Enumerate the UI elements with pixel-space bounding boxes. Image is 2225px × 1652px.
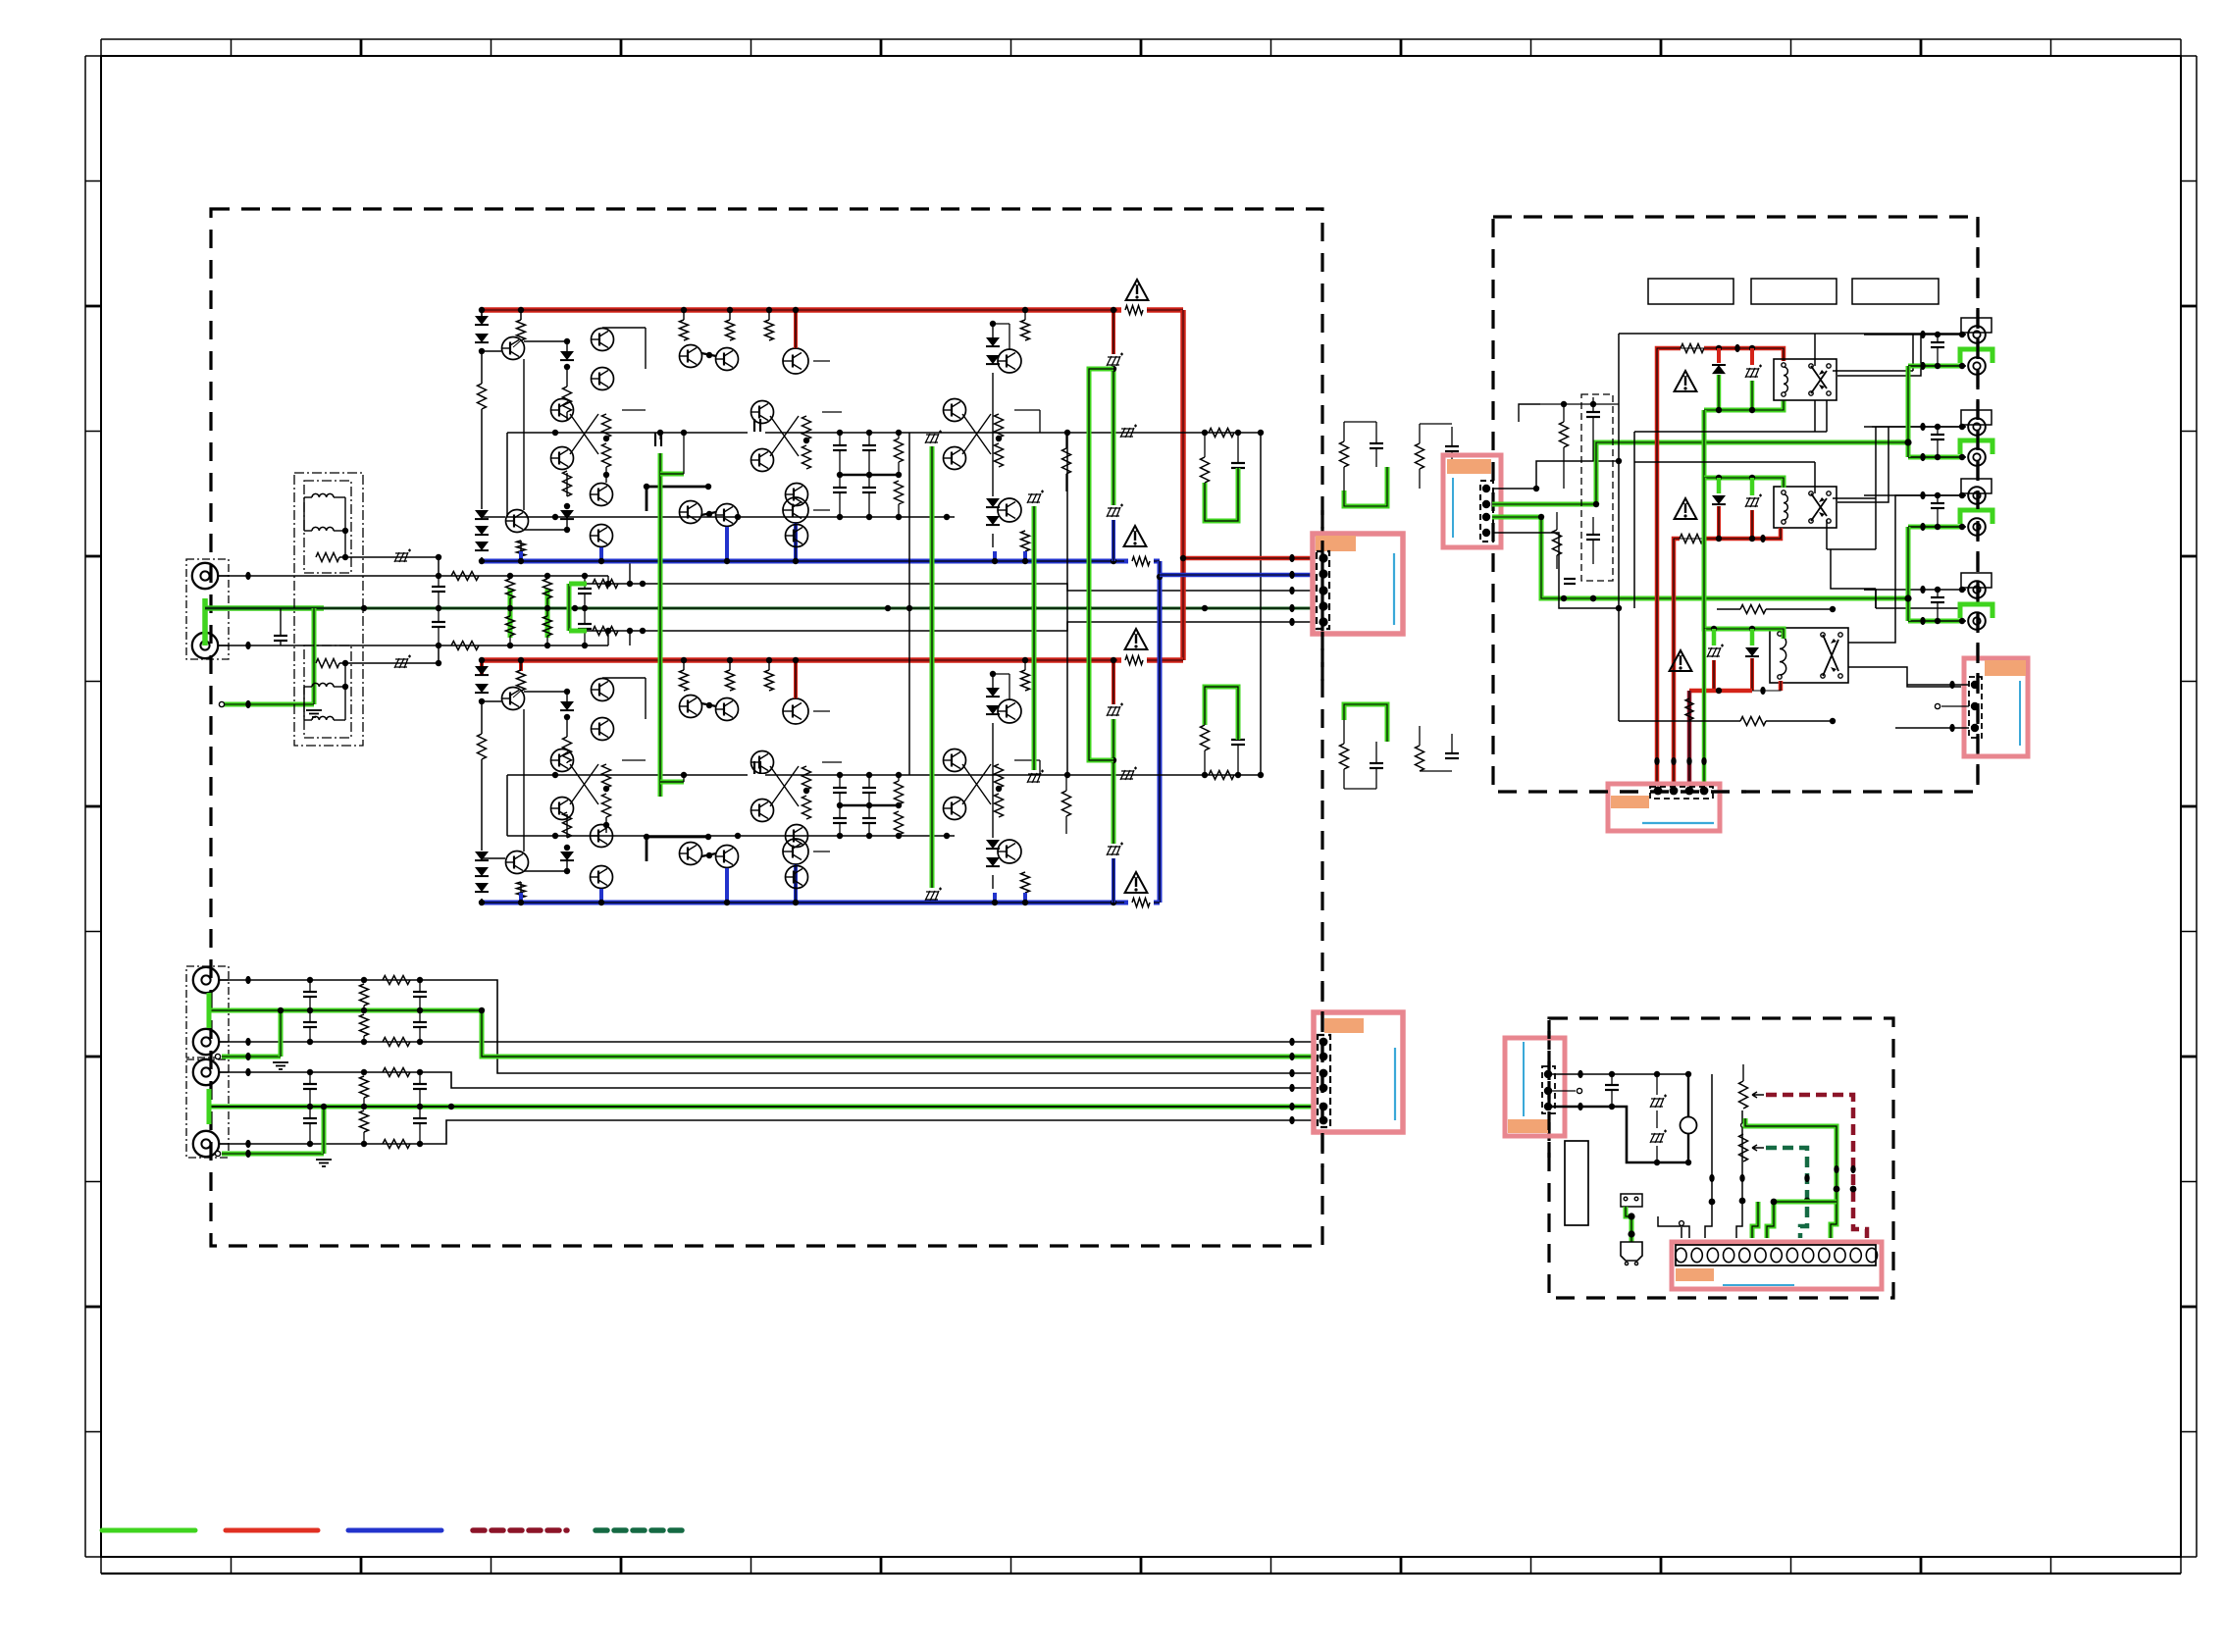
lower input filter caps col1 — [303, 991, 317, 993]
connector CN-B cyan note — [1394, 1048, 1396, 1120]
green link pair1-pair2 — [1906, 366, 1911, 457]
warning triangle lower blue — [1125, 872, 1148, 893]
connector CN-C body — [1443, 455, 1501, 547]
lower half emitter resistor right — [1062, 791, 1071, 816]
connector CN-E cyan note — [1523, 1042, 1525, 1116]
lower input filter caps col1 — [303, 1083, 317, 1085]
relay feed wire black from CN-C pin1 — [1492, 461, 1619, 489]
speaker jack pair capacitor — [1931, 434, 1944, 436]
terminal strip label — [1676, 1268, 1714, 1281]
wires to CN-G — [1907, 684, 1969, 686]
green elbow into pin7 — [1752, 1202, 1758, 1238]
relay box black top bus — [1619, 333, 1961, 335]
zobel network upper — [1204, 433, 1206, 457]
relay circuit 3 red bottom to maroon drop — [1689, 689, 1752, 694]
connector CN-B pin 1 — [1319, 1038, 1328, 1047]
green vertical link relay1-relay2 — [1702, 410, 1707, 478]
connector CN-B pin 4 — [1319, 1084, 1328, 1093]
lower half output transistor top — [998, 699, 1021, 723]
connector CN-E pin strip — [1542, 1066, 1555, 1113]
upper half predriver vertical pair bottom — [591, 484, 613, 506]
lower half diode string left bottom — [475, 852, 489, 860]
lower half predriver vertical pair bottom — [591, 825, 613, 848]
black vertical to terminal 4 — [1736, 1110, 1742, 1238]
transformer upper coil L1a — [312, 493, 334, 497]
upper half base line 2 — [507, 516, 955, 518]
dashed border overlay over connector CN-A — [1320, 510, 1323, 687]
dashed border overlay right box south edge — [1589, 790, 1746, 793]
wire J4 straight to pin1 — [219, 1041, 1314, 1043]
relay box filter dashed rect — [1581, 394, 1613, 581]
lower half power transistor big bottom — [783, 839, 808, 864]
warning triangle upper blue — [1124, 526, 1147, 546]
RCA input jack J2 — [192, 633, 218, 658]
relay box inner vertical right — [1876, 426, 1961, 428]
connector CN-C pin strip — [1480, 481, 1493, 542]
connector CN-A pin 5 — [1319, 617, 1327, 626]
capacitor at input node upper — [432, 586, 445, 588]
relay outputs to jacks — [1833, 370, 1913, 372]
feedback tap to blue rail — [629, 561, 631, 584]
terminal 5 — [1739, 1248, 1750, 1262]
lower input dash-dot box 1 — [186, 966, 229, 1058]
connector CN-D pin 1 — [1654, 787, 1663, 796]
speaker jack pair capacitor — [1931, 502, 1944, 504]
transformer lower coil L2a — [312, 683, 334, 687]
line-filter transformer dash-dot outer box — [294, 473, 363, 746]
connector CN-G label — [1985, 660, 2026, 676]
junction dots on center line — [361, 605, 367, 611]
RCA jack J5 — [193, 1059, 219, 1085]
connector CN-A pin 3 — [1319, 586, 1327, 594]
zener stack 1 — [1656, 1074, 1658, 1095]
signal ground bus green segment — [205, 605, 324, 611]
connector CN-E body — [1505, 1038, 1565, 1136]
border frame bottom band — [101, 1573, 2181, 1575]
lower half base line 1 — [507, 774, 1261, 776]
lower half xgroup link wires — [622, 759, 646, 761]
connector CN-D body — [1608, 784, 1720, 831]
lower half resistor left column — [481, 701, 483, 734]
connector CN-E label — [1508, 1119, 1548, 1133]
connector CN-E pin 1 — [1544, 1070, 1552, 1078]
lower half predriver vertical pair top — [592, 679, 614, 701]
connector CN-A cyan note — [1393, 553, 1395, 625]
lower input filter caps col3 — [413, 991, 427, 993]
green bus channel 4 to pin5 — [209, 1105, 1314, 1110]
connector CN-C cyan note — [1452, 478, 1454, 538]
relay2 zener — [1750, 478, 1755, 495]
connector CN-A pin strip — [1317, 551, 1329, 629]
legend blue solid wire sample — [348, 1528, 441, 1533]
stub 587 to 595 — [607, 576, 609, 584]
terminal 7 — [1771, 1248, 1782, 1262]
RCA jack J6 — [193, 1131, 219, 1157]
speaker jack pair bottom jack (green) — [1908, 619, 1964, 624]
capacitor across CN-E lines — [1605, 1084, 1619, 1086]
upper half power transistor big top — [783, 348, 808, 374]
warning triangle relay3 — [1670, 650, 1692, 671]
upper half resistor left column — [481, 351, 483, 384]
transformer upper section box — [304, 481, 351, 573]
feedback green link — [567, 584, 572, 631]
relay RL3 — [1770, 628, 1848, 683]
terminal 10 — [1819, 1248, 1830, 1262]
upper half cross-coupled pair C — [944, 399, 966, 422]
green link C-shape — [1089, 369, 1113, 760]
upper half bold bias elbow — [647, 486, 708, 489]
lower input dash-dot box 2 — [186, 1059, 229, 1158]
relay green feed from CN-C pin2 — [1492, 442, 1907, 504]
connector CN-B pin 2 — [1319, 1053, 1328, 1061]
warning triangle relay1 — [1675, 371, 1697, 391]
upper half capacitor bank — [833, 444, 847, 446]
connector CN-D pin 4 — [1700, 787, 1709, 796]
upper half power transistor big bottom — [783, 497, 808, 523]
relay1 diode — [1717, 348, 1721, 363]
connector CN-B pin 6 — [1319, 1116, 1328, 1125]
terminal 9 — [1803, 1248, 1814, 1262]
red drop wire 2 — [1672, 560, 1677, 784]
connector CN-D label — [1611, 796, 1649, 808]
speaker jack pair bottom jack (green) — [1908, 525, 1964, 530]
connector CN-D cyan note — [1642, 822, 1714, 824]
indicator circle — [1687, 1074, 1689, 1116]
lower input filter caps col3 — [413, 1083, 427, 1085]
speaker jack pair bottom jack (green) — [1908, 364, 1964, 369]
connector CN-C pin 4 — [1482, 529, 1490, 537]
transformer upper resistor — [316, 553, 339, 562]
upper half output transistor bottom — [998, 498, 1021, 522]
lower half output transistor bottom — [998, 840, 1021, 863]
speaker relay block dashed border — [1493, 217, 1978, 792]
speaker jack pair capacitor — [1931, 341, 1944, 343]
connector CN-C label — [1447, 459, 1491, 474]
RCA jack J4 — [193, 1029, 219, 1055]
transformer lower section box — [304, 645, 351, 738]
upper half transistor Q2 — [506, 510, 529, 533]
terminal 1 — [1676, 1248, 1686, 1262]
legend dark-red dashed wire sample — [473, 1527, 567, 1533]
connector CN-A wires red — [1183, 556, 1314, 561]
terminal 8 — [1786, 1248, 1797, 1262]
supply zener column upper — [1112, 310, 1115, 354]
input RC column 3 upper — [578, 588, 592, 590]
maroon dashed path — [1766, 1095, 1867, 1238]
terminal 2 — [1691, 1248, 1702, 1262]
zobel network lower — [1204, 750, 1206, 775]
zener on upper filter line — [394, 552, 408, 562]
lower half interstage vertical — [523, 709, 525, 852]
right RC pair upper — [1340, 441, 1349, 467]
right RC pair lower — [1340, 744, 1349, 769]
connector CN-B label — [1324, 1018, 1364, 1033]
relay block label rect 2 — [1751, 279, 1837, 304]
lower half capacitor bank bus — [840, 804, 899, 807]
connector CN-C pin 1 — [1482, 485, 1490, 492]
warning triangle top rail — [1126, 280, 1149, 300]
relay green feed from CN-C pin3 — [1492, 517, 1907, 598]
relay box extra routing black — [1837, 335, 1921, 376]
feedback line upper — [569, 584, 1314, 591]
lower half transistor Q2 — [506, 852, 529, 874]
capacitor across input pair — [274, 635, 287, 637]
relay box filter comps upper — [1560, 422, 1569, 447]
relay circuit 2 green top — [1704, 478, 1784, 488]
connector CN-A pin 2 — [1319, 569, 1327, 578]
terminal 4 — [1724, 1248, 1734, 1262]
speaker jack pair top jack — [1961, 573, 1992, 588]
connector CN-G body — [1964, 658, 2028, 756]
lower half cross-coupled pair A — [551, 749, 574, 772]
tall black link x927 — [908, 433, 910, 775]
relay feed wire black from CN-C pin4 — [1492, 533, 1619, 608]
transformer lower coil L2b — [312, 716, 334, 720]
positive rail upper half (red) — [482, 307, 1183, 313]
potentiometer VR1 — [1739, 1081, 1748, 1109]
tall rectangle part — [1565, 1141, 1588, 1225]
relay3 zener — [1712, 629, 1717, 645]
connector CN-E pin 2 — [1544, 1087, 1552, 1095]
green signal path vertical B — [930, 446, 935, 888]
connector CN-A body — [1313, 534, 1403, 634]
zener stack 2 — [1650, 1133, 1664, 1143]
border frame top band — [101, 38, 2181, 40]
connector CN-C pin 2 — [1482, 500, 1490, 508]
upper half driver mirror pair bottom — [680, 501, 702, 524]
upper half base line 1 — [507, 432, 1261, 434]
connector CN-C pin 3 — [1482, 513, 1490, 521]
input RC column 2 lower — [543, 616, 552, 636]
legend red solid wire sample — [226, 1528, 318, 1533]
main amplifier block dashed border — [211, 209, 1322, 1246]
maroon drop wire 3 — [1687, 691, 1692, 784]
wire J6 with step to pin6 — [219, 1120, 1314, 1144]
open terminal at ground wire — [219, 701, 224, 706]
upper half emitter resistor right — [1062, 448, 1071, 474]
connector CN-B pin strip — [1318, 1035, 1330, 1127]
lower half rail resistors mid — [680, 670, 689, 691]
upper half xgroup link wires — [622, 409, 646, 411]
relay3 resistor bottom — [1740, 717, 1766, 726]
border frame right band — [2196, 56, 2198, 1557]
connector CN-G pin strip — [1969, 677, 1982, 738]
relay2 switch links — [1826, 520, 1828, 549]
relay box mid black link — [1634, 431, 1827, 433]
speaker jack pair top jack — [1961, 410, 1992, 425]
border frame left band — [84, 56, 86, 1557]
black feeds to jack pairs — [1872, 426, 1876, 428]
wire filter to RC network bottom — [439, 645, 608, 646]
green drop wire 4 — [1702, 629, 1707, 784]
relay box link 471 — [1634, 461, 1815, 463]
wire J2 to filter — [218, 645, 439, 646]
upper half cross-coupled pair B — [751, 401, 774, 424]
feedback resistor upper — [593, 580, 618, 589]
green elbow right lower — [1344, 704, 1387, 742]
green signal path vertical D — [1032, 506, 1037, 770]
connector CN-A wire black1 — [1289, 587, 1294, 594]
relay3 resistor top — [1740, 605, 1766, 614]
relay1 green return — [1704, 400, 1784, 410]
RCA jack J3 — [193, 967, 219, 993]
lower half bold bias elbow — [647, 836, 708, 839]
right bracket link x1285 — [1260, 433, 1262, 775]
connector CN-G pin 3 — [1971, 724, 1979, 732]
lower half diode string left top — [481, 660, 483, 666]
dark green dashed path — [1766, 1148, 1807, 1238]
wire J5 with step to pin4 — [219, 1072, 1314, 1088]
terminal 12 — [1850, 1248, 1861, 1262]
legend dark-green dashed wire sample — [595, 1527, 687, 1533]
relay1 zener — [1750, 348, 1754, 365]
relay coil circuit 1 red feed — [1657, 348, 1681, 383]
upper half rail resistors mid — [680, 320, 689, 340]
green bus stubs at jacks — [207, 993, 212, 1028]
connector CN-G pin 2 — [1971, 702, 1979, 710]
transformer lower resistor — [316, 659, 339, 668]
connector CN-G cyan note — [2019, 681, 2021, 746]
stub 658 to 643 — [607, 631, 609, 645]
power/control block dashed border — [1549, 1018, 1893, 1298]
upper half diode string left top — [481, 310, 483, 316]
CN-E pin3 wire thick — [1548, 1107, 1688, 1162]
lower half capacitor bank — [833, 787, 847, 789]
relay1 switch to top bus — [1814, 334, 1816, 366]
upper half diode-resistor column x578 — [524, 340, 567, 342]
green link pair3-pair4 — [1906, 527, 1911, 621]
transformer upper coil L1b — [312, 527, 334, 531]
connector CN-B body — [1314, 1012, 1403, 1132]
tall black link x1088 — [1066, 433, 1068, 775]
connector CN-E pin 3 — [1544, 1103, 1552, 1110]
green ground drop at input — [312, 608, 317, 704]
connector CN-A wire black2 — [1289, 618, 1294, 626]
green elbow right upper — [1344, 467, 1387, 506]
input RC column 1 lower — [506, 616, 515, 636]
relay block label rect 3 — [1852, 279, 1939, 304]
CN-E pin2 stub open — [1548, 1090, 1576, 1092]
terminal strip CN-F body — [1672, 1242, 1882, 1289]
lower transformer wiring — [303, 687, 305, 720]
ground drop channel 3 — [215, 1054, 220, 1058]
ground drop channel 4 — [215, 1151, 220, 1156]
relay circuit 3 green top — [1704, 478, 1784, 639]
upper half driver mirror pair — [680, 345, 702, 368]
upper half output transistor top — [998, 349, 1021, 373]
connector CN-A pin 1 — [1319, 553, 1327, 562]
green signal path vertical A — [654, 433, 656, 446]
dashed border overlay over connector CN-B — [1320, 981, 1323, 1167]
ground symbol input — [306, 709, 322, 711]
relay RL2 — [1774, 487, 1837, 528]
terminal 6 — [1755, 1248, 1766, 1262]
connector CN-D pin 3 — [1685, 787, 1694, 796]
warning triangle relay2 — [1675, 498, 1697, 519]
lower half base line 2 — [507, 835, 955, 837]
warning triangle lower red — [1125, 629, 1148, 649]
supply zener column lower — [1112, 660, 1115, 704]
negative rail lower half (blue) — [482, 901, 1160, 905]
CN-E pin1 wire — [1548, 1073, 1688, 1075]
lower half cross-coupled pair C — [944, 749, 966, 772]
lower half bottom pair stage2 — [786, 825, 808, 848]
red rail drop to lower half — [1180, 310, 1186, 660]
connector CN-A pin 4 — [1319, 601, 1327, 610]
terminal strip CN-F bar — [1676, 1245, 1876, 1265]
relay RL1 — [1774, 359, 1837, 400]
relay box black bus left vertical — [1618, 334, 1620, 721]
upper half capacitor bank bus — [840, 474, 899, 477]
zener on lower filter line — [394, 658, 408, 668]
second right RC pair upper — [1416, 443, 1424, 469]
connector CN-B pin 5 — [1319, 1103, 1328, 1111]
negative rail upper half (blue) — [482, 559, 1160, 564]
wire filter to RC network top — [439, 575, 608, 577]
lower input filter res col2 — [360, 1076, 369, 1098]
input RC column 1 upper — [508, 589, 513, 638]
potentiometer VR2 — [1739, 1134, 1748, 1162]
terminal 13 — [1866, 1248, 1877, 1262]
small green connector part — [1621, 1194, 1642, 1207]
input RC column 3 lower — [578, 623, 592, 625]
lower half output diode column — [992, 674, 994, 688]
resistor input bottom line — [451, 642, 479, 650]
connector CN-A wire green — [1289, 604, 1294, 612]
green bus channel 3 to pin2 — [209, 1010, 1314, 1057]
red drop wire 1 — [1655, 383, 1660, 784]
connector CN-B pin 3 — [1319, 1069, 1328, 1078]
lower half cross-coupled pair B — [751, 751, 774, 774]
lower half driver mirror pair — [680, 696, 702, 718]
lower half power transistor big top — [783, 698, 808, 724]
connector CN-A label — [1316, 536, 1356, 551]
wire J3 with step to connector pin3 — [219, 980, 1314, 1073]
legend green solid wire sample — [102, 1528, 195, 1533]
relay3 diode — [1750, 629, 1755, 645]
second right RC pair lower — [1416, 746, 1424, 771]
upper half cross-coupled pair A — [551, 399, 574, 422]
upper half transistor Q1 — [517, 320, 526, 340]
terminal 11 — [1835, 1248, 1845, 1262]
black elbows into terminal strip — [1681, 1227, 1682, 1238]
feedback line lower — [569, 622, 1314, 631]
upper half bottom pair stage2 — [786, 484, 808, 506]
lower half transistor Q1 — [517, 670, 526, 691]
blue rail drop — [1158, 561, 1163, 903]
bright green path in control box — [1745, 1118, 1837, 1238]
bright green horizontal link — [1774, 1200, 1837, 1205]
speaker jack pair top jack — [1961, 318, 1992, 333]
lower input filter res col2 — [360, 984, 369, 1006]
connector CN-G pin 1 — [1971, 681, 1979, 689]
wire J1 to filter — [218, 575, 439, 577]
lower half diode-resistor column x578 — [524, 691, 567, 693]
plug component — [1621, 1242, 1642, 1261]
upper half diode string left bottom — [475, 510, 489, 519]
terminal strip cyan note — [1723, 1284, 1794, 1286]
relay2 diode — [1717, 478, 1722, 493]
connector CN-A wires blue — [1160, 573, 1314, 578]
terminal 3 — [1707, 1248, 1718, 1262]
center signal line (dark green) through amplifier — [205, 607, 1314, 610]
dashed border overlay control box west edge — [1547, 1020, 1550, 1158]
upper half predriver vertical pair top — [592, 329, 614, 351]
black vertical to terminal 2 — [1688, 1073, 1712, 1075]
positive rail lower half (red) — [482, 657, 1183, 663]
speaker jack pair capacitor — [1931, 596, 1944, 598]
capacitor at input node lower — [432, 621, 445, 623]
